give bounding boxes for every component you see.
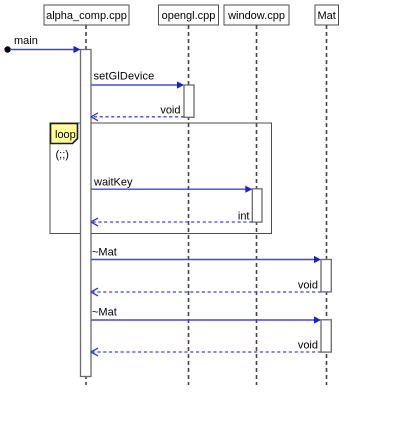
found message dot (main) <box>4 46 10 52</box>
svg-text:loop: loop <box>55 129 76 141</box>
actor box alpha_comp.cpp <box>44 5 129 25</box>
svg-text:void: void <box>298 280 318 292</box>
svg-text:window.cpp: window.cpp <box>227 10 285 22</box>
message ~Mat 2 <box>92 307 322 324</box>
activation bar window <box>252 189 262 222</box>
lifeline alpha_comp.cpp <box>85 25 87 385</box>
lifeline window.cpp <box>256 25 258 385</box>
svg-text:waitKey: waitKey <box>93 177 133 189</box>
svg-text:~Mat: ~Mat <box>92 247 117 259</box>
svg-text:opengl.cpp: opengl.cpp <box>162 10 216 22</box>
return int (waitKey) <box>91 211 252 226</box>
activation bar alpha_comp <box>81 50 92 377</box>
lifeline opengl.cpp <box>188 25 190 385</box>
svg-text:void: void <box>160 105 180 117</box>
message ~Mat 1 <box>92 247 322 264</box>
lifeline Mat <box>326 25 328 385</box>
actor box Mat <box>315 5 339 25</box>
svg-text:Mat: Mat <box>318 10 336 22</box>
return void (~Mat 2) <box>91 340 321 356</box>
activation bar Mat 1 <box>321 260 331 292</box>
actor box opengl.cpp <box>159 5 219 25</box>
loop fragment label pentagon <box>51 124 78 144</box>
actor box window.cpp <box>224 5 289 25</box>
activation bar Mat 2 <box>321 320 331 352</box>
svg-text:setGlDevice: setGlDevice <box>94 71 155 83</box>
message setGlDevice <box>92 71 185 89</box>
message waitKey <box>92 177 253 193</box>
return void (~Mat 1) <box>91 280 321 296</box>
loop fragment frame <box>50 123 272 234</box>
svg-text:alpha_comp.cpp: alpha_comp.cpp <box>46 10 127 22</box>
message main <box>10 35 81 53</box>
svg-text:main: main <box>14 35 38 47</box>
svg-text:(;;): (;;) <box>56 149 69 161</box>
activation bar opengl <box>184 85 194 117</box>
svg-text:~Mat: ~Mat <box>92 307 117 319</box>
svg-text:void: void <box>298 340 318 352</box>
svg-text:int: int <box>238 211 250 223</box>
return void (setGlDevice) <box>91 105 184 121</box>
